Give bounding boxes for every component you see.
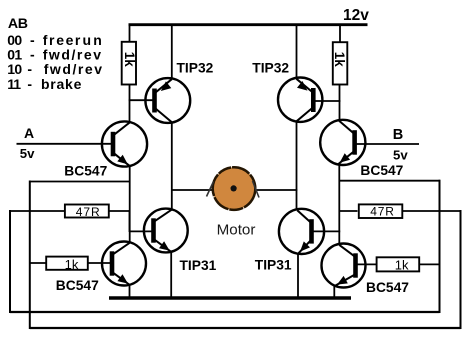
svg-text:10: 10 bbox=[7, 61, 22, 77]
svg-text:47R: 47R bbox=[76, 205, 101, 219]
svg-text:1k: 1k bbox=[122, 52, 137, 67]
svg-text:12v: 12v bbox=[343, 7, 369, 24]
svg-text:TIP31: TIP31 bbox=[180, 258, 217, 273]
svg-text:1k: 1k bbox=[395, 258, 409, 273]
svg-text:1k: 1k bbox=[332, 52, 347, 67]
svg-text:-: - bbox=[27, 76, 32, 92]
svg-text:BC547: BC547 bbox=[360, 163, 403, 178]
svg-text:brake: brake bbox=[41, 76, 82, 92]
svg-text:TIP31: TIP31 bbox=[255, 258, 292, 273]
svg-text:-: - bbox=[27, 61, 32, 77]
svg-text:BC547: BC547 bbox=[366, 280, 409, 295]
svg-text:A: A bbox=[24, 125, 34, 141]
svg-text:5v: 5v bbox=[393, 148, 408, 163]
svg-text:Motor: Motor bbox=[217, 222, 256, 239]
svg-text:11: 11 bbox=[7, 76, 21, 92]
svg-text:5v: 5v bbox=[20, 146, 35, 161]
svg-text:47R: 47R bbox=[370, 205, 394, 219]
svg-text:TIP32: TIP32 bbox=[252, 60, 289, 75]
svg-text:01: 01 bbox=[7, 47, 22, 63]
svg-text:00: 00 bbox=[7, 32, 22, 48]
svg-text:free: free bbox=[43, 32, 75, 48]
svg-text:-: - bbox=[30, 47, 35, 63]
svg-text:fwd/rev: fwd/rev bbox=[44, 61, 104, 77]
svg-text:AB: AB bbox=[8, 16, 28, 32]
svg-text:fwd/rev: fwd/rev bbox=[43, 47, 103, 63]
svg-text:1k: 1k bbox=[65, 257, 79, 272]
svg-text:B: B bbox=[393, 127, 403, 143]
svg-text:TIP32: TIP32 bbox=[177, 61, 214, 76]
svg-text:BC547: BC547 bbox=[56, 278, 99, 293]
svg-text:run: run bbox=[75, 32, 104, 48]
svg-text:-: - bbox=[30, 32, 35, 48]
svg-text:BC547: BC547 bbox=[64, 164, 107, 179]
